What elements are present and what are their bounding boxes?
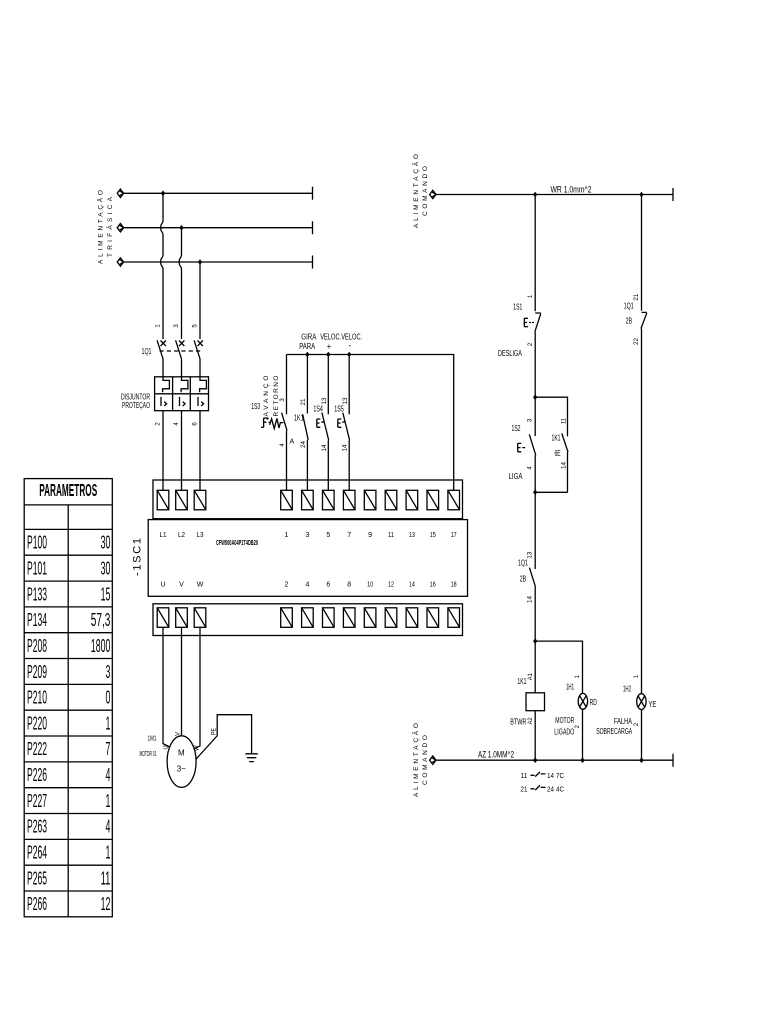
svg-text:VELOC.: VELOC. xyxy=(341,333,362,342)
wire rail to 1Q1 2B NC xyxy=(641,195,643,311)
node ALIMENTACAO COMANDO bottom label xyxy=(411,723,429,797)
svg-text:WR 1.0mm^2: WR 1.0mm^2 xyxy=(551,185,592,195)
svg-text:W: W xyxy=(195,745,201,751)
svg-text:P208: P208 xyxy=(27,636,47,656)
svg-text:SOBRECARGA: SOBRECARGA xyxy=(596,727,632,736)
wire V to motor xyxy=(181,627,183,736)
table PARAMETROS frame xyxy=(24,479,112,917)
svg-text:L2: L2 xyxy=(178,532,185,539)
svg-text:1: 1 xyxy=(106,843,111,863)
table row P208 xyxy=(27,636,110,656)
node junction bus 1S5 xyxy=(347,352,351,358)
svg-text:11: 11 xyxy=(521,773,528,780)
svg-text:V: V xyxy=(176,732,182,736)
wire control bus to terminals xyxy=(287,355,454,491)
svg-text:DISJUNTOR: DISJUNTOR xyxy=(121,392,150,401)
svg-text:+: + xyxy=(327,342,332,351)
svg-text:13: 13 xyxy=(409,532,415,539)
svg-text:24: 24 xyxy=(301,440,307,448)
node junction bus 1K1 xyxy=(305,352,309,358)
svg-text:14: 14 xyxy=(547,773,554,780)
svg-text:11: 11 xyxy=(388,532,394,539)
svg-text:4: 4 xyxy=(528,466,534,470)
svg-text:YE: YE xyxy=(648,700,656,709)
label FALHA SOBRECARGA xyxy=(596,717,632,736)
svg-text:5: 5 xyxy=(326,532,330,539)
table row P210 xyxy=(27,688,110,708)
svg-text:2B: 2B xyxy=(626,317,633,326)
wire breaker to VFD L2 xyxy=(181,411,183,491)
wire phase L1 xyxy=(117,187,312,200)
table row P101 xyxy=(27,558,110,578)
svg-text:3: 3 xyxy=(305,532,309,539)
svg-text:DESLIGA: DESLIGA xyxy=(498,349,522,358)
svg-text:14: 14 xyxy=(562,461,568,469)
svg-text:1K1: 1K1 xyxy=(552,434,561,443)
svg-text:14: 14 xyxy=(343,444,349,452)
overload block box xyxy=(155,377,209,411)
svg-text:L1: L1 xyxy=(160,532,167,539)
svg-text:1S4: 1S4 xyxy=(313,405,323,414)
svg-text:0: 0 xyxy=(106,688,111,708)
svg-text:VELOC.: VELOC. xyxy=(320,333,341,342)
svg-text:4C: 4C xyxy=(556,786,564,793)
terminal 4 bottom xyxy=(302,608,314,628)
table row P134 xyxy=(27,610,110,630)
svg-text:4: 4 xyxy=(174,422,180,426)
svg-text:14: 14 xyxy=(409,582,415,589)
svg-text:1K1: 1K1 xyxy=(517,677,526,686)
svg-text:PROTEÇAO: PROTEÇAO xyxy=(122,401,150,410)
overload I> pole1 xyxy=(161,397,167,406)
terminal 5 top xyxy=(323,490,335,510)
wire rail WR top xyxy=(430,188,673,201)
terminal 10 bottom xyxy=(364,608,376,628)
svg-text:3: 3 xyxy=(174,324,180,328)
svg-text:FALHA: FALHA xyxy=(614,717,632,726)
svg-text:7: 7 xyxy=(106,739,111,759)
breaker 1Q1 pole 3 xyxy=(194,340,203,377)
overload hook pole3 xyxy=(200,377,207,393)
svg-text:ALIMENTAÇÃO: ALIMENTAÇÃO xyxy=(96,190,105,264)
table row P227 xyxy=(27,791,110,811)
svg-text:P264: P264 xyxy=(27,843,47,863)
svg-text:MOTOR 01: MOTOR 01 xyxy=(140,751,157,758)
svg-text:1S3: 1S3 xyxy=(251,402,260,411)
svg-text:P101: P101 xyxy=(27,558,47,578)
svg-text:1: 1 xyxy=(528,294,534,298)
svg-text:P226: P226 xyxy=(27,765,47,785)
svg-text:1: 1 xyxy=(106,791,111,811)
svg-text:11: 11 xyxy=(562,417,568,424)
contact 1K1 seal 11-14 xyxy=(562,434,568,493)
svg-text:2: 2 xyxy=(528,342,534,346)
wire L3 drop to breaker xyxy=(199,262,201,339)
svg-text:PARAMETROS: PARAMETROS xyxy=(39,480,97,500)
svg-text:A2: A2 xyxy=(528,717,534,725)
terminal 3 top xyxy=(302,490,314,510)
node junction H1 branch xyxy=(533,638,537,644)
label VELOC + xyxy=(320,333,341,352)
lamp 1H2 YE xyxy=(637,694,646,710)
svg-text:LIGADO: LIGADO xyxy=(554,727,574,736)
svg-text:3: 3 xyxy=(106,662,111,682)
svg-text:1M1: 1M1 xyxy=(148,736,157,743)
breaker 1Q1 pole 1 xyxy=(157,340,166,377)
terminal L3 top xyxy=(194,490,206,510)
svg-text:15: 15 xyxy=(430,532,436,539)
svg-text:2: 2 xyxy=(575,724,581,728)
terminal 15 top xyxy=(427,490,439,510)
svg-text:1H1: 1H1 xyxy=(566,683,574,692)
svg-text:P222: P222 xyxy=(27,739,47,759)
svg-text:12: 12 xyxy=(388,582,394,589)
cross-reference contact 21-24 4C xyxy=(521,785,565,793)
svg-text:W: W xyxy=(197,582,204,589)
table row P264 xyxy=(27,843,110,863)
svg-text:AVANÇO: AVANÇO xyxy=(263,376,270,417)
svg-text:A1: A1 xyxy=(528,673,534,681)
table row P263 xyxy=(27,817,110,837)
svg-text:1800: 1800 xyxy=(91,636,111,656)
terminal 18 bottom xyxy=(448,608,460,628)
motor 1M1 xyxy=(167,736,196,788)
terminal 17 top xyxy=(448,490,460,510)
terminal V bottom xyxy=(176,608,188,628)
svg-text:21: 21 xyxy=(634,293,640,301)
wire breaker to VFD L3 xyxy=(199,411,201,491)
breaker 1Q1 pole 2 xyxy=(176,340,185,377)
node junction rail-H2 xyxy=(639,757,643,763)
svg-text:7: 7 xyxy=(347,532,351,539)
svg-text:2: 2 xyxy=(156,422,162,426)
svg-text:1S5: 1S5 xyxy=(334,405,344,414)
svg-text:1: 1 xyxy=(106,713,111,733)
VFD terminal strip bottom xyxy=(153,604,463,636)
svg-text:11: 11 xyxy=(101,868,111,888)
terminal 2 bottom xyxy=(281,608,293,628)
svg-text:P220: P220 xyxy=(27,713,47,733)
svg-text:P227: P227 xyxy=(27,791,47,811)
node junction rail-1S1 xyxy=(533,192,537,198)
terminal 14 bottom xyxy=(406,608,418,628)
wire breaker to VFD L1 xyxy=(162,411,164,491)
ground xyxy=(245,754,257,762)
node ALIMENTACAO TRIFASICA label xyxy=(96,190,114,264)
terminal U bottom xyxy=(157,608,169,628)
lamp 1H1 RD xyxy=(578,693,587,709)
wire H1 branch xyxy=(535,641,582,693)
svg-text:1: 1 xyxy=(156,324,162,328)
wire coil to rail xyxy=(534,711,536,761)
svg-text:TRIFÁSICA: TRIFÁSICA xyxy=(105,196,114,257)
overload I> pole3 xyxy=(198,397,204,406)
overload I> pole2 xyxy=(180,397,186,406)
svg-text:1: 1 xyxy=(634,674,640,678)
VFD -1SC1 terminal strip top xyxy=(153,480,463,519)
svg-text:13: 13 xyxy=(322,397,328,405)
wire rail AZ bottom xyxy=(430,754,673,767)
svg-text:-1SC1: -1SC1 xyxy=(132,538,144,576)
svg-text:P265: P265 xyxy=(27,868,47,888)
wire W to motor xyxy=(194,627,200,749)
svg-text:RD: RD xyxy=(590,698,598,707)
svg-text:P100: P100 xyxy=(27,533,47,553)
svg-text:3: 3 xyxy=(528,418,534,422)
svg-text:16: 16 xyxy=(430,582,436,589)
table row P133 xyxy=(27,584,110,604)
svg-text:2: 2 xyxy=(634,722,640,726)
svg-text:15: 15 xyxy=(101,584,111,604)
terminal 1 top xyxy=(281,490,293,510)
svg-text:57,3: 57,3 xyxy=(91,610,111,630)
table row P226 xyxy=(27,765,110,785)
svg-text:-: - xyxy=(349,341,352,350)
contact 1Q1 2B NO xyxy=(529,568,535,642)
wire seal branch bottom xyxy=(535,491,567,493)
svg-text:21: 21 xyxy=(521,786,528,793)
svg-text:12: 12 xyxy=(101,894,111,914)
terminal 9 top xyxy=(364,490,376,510)
svg-text:COMANDO: COMANDO xyxy=(422,166,429,216)
wire L2 drop to breaker with hop xyxy=(179,228,181,339)
breaker linkage dashed xyxy=(160,350,201,352)
table row P265 xyxy=(27,868,110,888)
svg-text:BTWR: BTWR xyxy=(510,717,526,726)
node junction phase L3 tap xyxy=(198,259,202,265)
wire PE from motor xyxy=(196,715,252,760)
svg-text:14: 14 xyxy=(528,595,534,603)
svg-text:4: 4 xyxy=(280,443,286,447)
contact 1K1 21-24 xyxy=(303,355,309,491)
wire U to motor xyxy=(163,627,170,747)
svg-text:M: M xyxy=(178,748,185,757)
svg-text:1: 1 xyxy=(575,674,581,678)
node junction rail-H1 xyxy=(580,757,584,763)
node junction phase L2 tap xyxy=(179,225,183,231)
overload hook pole1 xyxy=(163,377,170,393)
svg-text:P210: P210 xyxy=(27,688,47,708)
svg-text:1H2: 1H2 xyxy=(623,684,631,693)
svg-text:AZ 1.0MM^2: AZ 1.0MM^2 xyxy=(478,750,514,760)
svg-text:COMANDO: COMANDO xyxy=(422,735,429,785)
terminal 8 bottom xyxy=(343,608,355,628)
node junction bus 1S4 xyxy=(326,352,330,358)
svg-text:6: 6 xyxy=(193,422,199,426)
wire L1 drop to breaker with hops xyxy=(161,193,163,339)
svg-text:CFW500A04P1T4DB20: CFW500A04P1T4DB20 xyxy=(216,538,258,547)
svg-text:30: 30 xyxy=(101,558,111,578)
svg-text:PE: PE xyxy=(211,728,217,735)
terminal 6 bottom xyxy=(323,608,335,628)
label MOTOR LIGADO xyxy=(554,716,574,736)
svg-text:P134: P134 xyxy=(27,610,47,630)
terminal L2 top xyxy=(176,490,188,510)
wire rail to 1S1 xyxy=(534,195,536,312)
svg-text:2: 2 xyxy=(285,582,289,589)
svg-text:MOTOR: MOTOR xyxy=(555,716,574,725)
wire H1 to rail xyxy=(582,709,584,760)
terminal L1 top xyxy=(157,490,169,510)
table row P220 xyxy=(27,713,110,733)
cross-reference contact 11-14 7C xyxy=(521,772,565,780)
terminal 7 top xyxy=(343,490,355,510)
svg-text:P209: P209 xyxy=(27,662,47,682)
svg-text:RETORNO: RETORNO xyxy=(273,376,280,417)
svg-text:2B: 2B xyxy=(520,575,527,584)
VFD body xyxy=(148,520,467,597)
svg-text:21: 21 xyxy=(301,398,307,406)
svg-text:U: U xyxy=(160,582,165,589)
svg-text:1S2: 1S2 xyxy=(512,424,521,433)
svg-text:6: 6 xyxy=(326,582,330,589)
switch 1S3 AVANCO RETORNO xyxy=(261,355,287,491)
table row P266 xyxy=(27,894,110,914)
svg-text:1K1: 1K1 xyxy=(294,414,304,423)
label DISJUNTOR PROTECAO xyxy=(121,392,150,410)
terminal 11 top xyxy=(385,490,397,510)
table row P209 xyxy=(27,662,110,682)
terminal 12 bottom xyxy=(385,608,397,628)
svg-text:PARA: PARA xyxy=(299,342,315,351)
svg-text:L3: L3 xyxy=(197,532,204,539)
svg-text:8: 8 xyxy=(347,582,351,589)
svg-text:ALIMENTAÇÃO: ALIMENTAÇÃO xyxy=(411,154,420,228)
node ALIMENTACAO COMANDO top label xyxy=(411,154,429,228)
wire to coil xyxy=(534,641,536,693)
terminal W bottom xyxy=(194,608,206,628)
svg-text:14: 14 xyxy=(322,444,328,452)
svg-text:4: 4 xyxy=(106,765,111,785)
wire seal branch top xyxy=(535,397,567,436)
wire phase L2 xyxy=(117,221,312,234)
label VELOC - xyxy=(341,333,362,351)
table row P100 xyxy=(27,533,110,553)
svg-text:6E: 6E xyxy=(555,449,561,458)
svg-text:13: 13 xyxy=(343,397,349,405)
contact 1Q1 2B NC xyxy=(641,312,647,693)
label GIRA PARA xyxy=(299,333,317,352)
svg-text:1S1: 1S1 xyxy=(513,303,522,312)
svg-text:U: U xyxy=(164,745,170,749)
pushbutton NC 1S1 xyxy=(524,313,541,397)
pushbutton 1S4 xyxy=(317,355,329,491)
svg-text:P133: P133 xyxy=(27,584,47,604)
label 1M1 MOTOR 01 xyxy=(140,736,157,759)
overload hook pole2 xyxy=(181,377,188,393)
terminal 13 top xyxy=(406,490,418,510)
pushbutton NO 1S2 xyxy=(518,397,536,492)
svg-text:1Q1: 1Q1 xyxy=(624,301,634,310)
svg-text:ALIMENTAÇÃO: ALIMENTAÇÃO xyxy=(411,723,420,797)
svg-text:3~: 3~ xyxy=(177,765,186,774)
node junction rail-1Q1 xyxy=(639,192,643,198)
svg-text:1Q1: 1Q1 xyxy=(142,347,152,356)
svg-text:V: V xyxy=(179,582,184,589)
wire to 1Q1 contact xyxy=(534,492,536,569)
svg-text:A: A xyxy=(290,439,295,446)
svg-text:3: 3 xyxy=(280,398,286,402)
svg-text:18: 18 xyxy=(451,582,457,589)
svg-text:P266: P266 xyxy=(27,894,47,914)
node junction seal top xyxy=(533,394,537,400)
svg-text:4: 4 xyxy=(305,582,309,589)
wire phase L3 xyxy=(117,256,312,269)
svg-text:7C: 7C xyxy=(556,773,564,780)
node junction rail-coil xyxy=(533,757,537,763)
node junction seal bottom xyxy=(533,490,537,496)
svg-text:9: 9 xyxy=(368,532,372,539)
svg-text:P263: P263 xyxy=(27,817,47,837)
coil 1K1 BTWR xyxy=(526,693,545,711)
svg-text:22: 22 xyxy=(634,337,640,345)
svg-text:LIGA: LIGA xyxy=(509,472,524,481)
svg-text:5: 5 xyxy=(193,324,199,328)
label AVANCO RETORNO rotated xyxy=(263,376,280,417)
svg-text:GIRA: GIRA xyxy=(301,333,317,342)
wire H2 to rail xyxy=(641,710,643,761)
pushbutton 1S5 xyxy=(338,355,350,491)
svg-text:30: 30 xyxy=(101,533,111,553)
table row P222 xyxy=(27,739,110,759)
svg-text:24: 24 xyxy=(547,786,554,793)
node junction phase L1 tap xyxy=(161,191,165,197)
svg-text:1: 1 xyxy=(285,532,289,539)
svg-text:10: 10 xyxy=(367,582,373,589)
terminal 16 bottom xyxy=(427,608,439,628)
svg-text:17: 17 xyxy=(451,532,457,539)
svg-text:13: 13 xyxy=(528,551,534,559)
svg-text:4: 4 xyxy=(106,817,111,837)
